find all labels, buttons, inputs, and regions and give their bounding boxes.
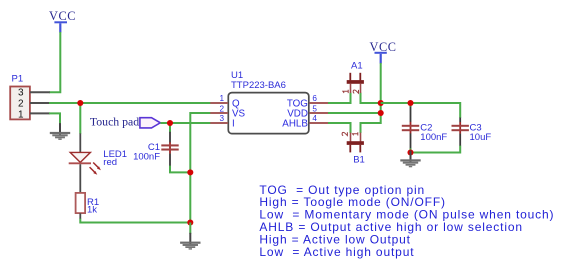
resistor R1 [76,193,100,219]
svg-text:B1: B1 [353,154,365,165]
node junction ground rail [187,219,193,225]
wire junction to center ground [189,223,191,234]
wire VDD to node [328,112,381,114]
wire LED drop [79,103,81,134]
wire R1 to ground rail [80,219,190,223]
node junction VS C1 [187,169,193,175]
wire VCC to P1 pin 3 [49,32,60,92]
wire TOG to A1 pin 1 [328,93,351,103]
ground P1 [50,123,70,140]
node C2 top [407,100,413,106]
svg-text:1: 1 [219,94,224,103]
svg-text:2: 2 [18,99,24,110]
connector P1 [10,73,50,120]
wire A1 pin 2 to VCC node [361,93,381,103]
wire top rail to C2 C3 [381,103,461,118]
wire U1 pin 2 VS down [190,113,211,223]
power symbol VCC right [370,40,397,64]
wire C1 bottom to VS [170,166,190,173]
svg-text:Touch pad: Touch pad [90,115,139,129]
node junction C1 tap [167,120,173,126]
svg-text:P1: P1 [12,73,24,84]
jumper A1 [343,61,364,94]
svg-text:3: 3 [18,88,24,99]
LED LED1 [69,133,127,193]
port Touch pad [90,115,160,129]
svg-text:AHLB: AHLB [282,119,308,130]
svg-text:1k: 1k [87,205,97,216]
svg-text:10uF: 10uF [470,132,492,143]
wire P1 pin 1 to ground [49,113,60,124]
IC U1 TTP223-BA6 [210,70,329,133]
jumper B1 [342,132,365,165]
svg-text:I: I [232,119,235,130]
power symbol VCC left [49,9,76,33]
capacitor C1 [133,123,179,166]
wire node to B1 pin 1 [361,113,381,133]
svg-text:5: 5 [312,104,317,113]
svg-text:red: red [103,157,117,168]
node junction LED tap [77,100,83,106]
capacitor C3 [452,118,492,146]
wire port to U1 pin 3 [160,122,211,124]
note text TOG AHLB description [259,183,554,259]
ground center [180,233,200,250]
svg-text:4: 4 [312,114,317,123]
svg-text:A1: A1 [351,61,363,72]
svg-text:2: 2 [219,104,224,113]
node VCC VDD [378,110,384,116]
node VCC TOG [378,100,384,106]
ground right [400,151,420,168]
svg-text:TTP223-BA6: TTP223-BA6 [231,80,286,91]
svg-text:3: 3 [219,114,224,123]
wire AHLB to B1 pin 2 [328,123,351,133]
svg-text:1: 1 [18,109,24,120]
wire VCC right down [380,63,382,113]
wire net Q : P1 pin 2 to U1 pin 1 [49,102,211,104]
capacitor C2 [402,103,448,153]
svg-text:6: 6 [312,94,317,103]
svg-text:100nF: 100nF [133,151,160,162]
wire C3 bottom rail [411,146,461,153]
node ground right [407,149,413,155]
svg-text:VCC: VCC [49,9,76,23]
svg-text:Low = Active high output: Low = Active high output [259,245,414,259]
svg-text:100nF: 100nF [420,132,447,143]
